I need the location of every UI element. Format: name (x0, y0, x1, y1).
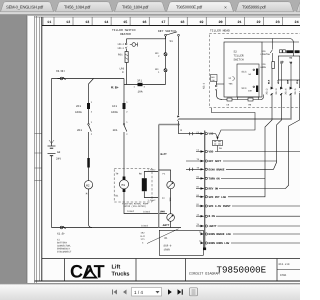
wire M1 exit (124, 192, 167, 214)
svg-text:TILLER HEAD: TILLER HEAD (210, 29, 230, 32)
motor M1 (123, 177, 126, 180)
connector key line (177, 116, 179, 122)
wire key switch left leg (165, 36, 167, 52)
svg-text:MOTOR (SCH-MOTOR): MOTOR (SCH-MOTOR) (124, 205, 146, 208)
connector X1:B+ pin (60, 77, 63, 80)
wire XS4 stub (290, 80, 292, 98)
svg-text:S13:: S13: (242, 70, 248, 73)
wire B- bus (52, 227, 182, 229)
wire X1:B+ feeder (52, 78, 125, 80)
svg-text:LIGHTSW: LIGHTSW (261, 53, 271, 56)
svg-text:SCR-0: SCR-0 (164, 245, 172, 248)
contact 2K1 (88, 124, 90, 126)
wire resistor bottom (144, 191, 158, 197)
svg-text:HORN HORN LOW: HORN HORN LOW (209, 242, 230, 245)
pin VCC (196, 133, 204, 135)
wire key to VCC pin (179, 121, 204, 134)
connector inline ECHO (189, 168, 192, 171)
pin numbers (197, 131, 203, 243)
svg-text:XPS:1: XPS:1 (118, 47, 125, 50)
svg-text:S2: S2 (234, 51, 238, 54)
svg-text:-BATT: -BATT (162, 224, 170, 227)
box PB (278, 56, 300, 80)
svg-text:GRN: GRN (287, 79, 290, 84)
svg-text:3F1: 3F1 (137, 80, 142, 83)
pin SPD IN (196, 205, 204, 207)
contact PB dots (281, 62, 283, 64)
svg-text:SEM-0_ENGLISH.pdf: SEM-0_ENGLISH.pdf (6, 5, 44, 10)
note 1K2 stack (141, 232, 146, 245)
svg-text:SWITCH: SWITCH (234, 59, 244, 62)
svg-text:10A: 10A (138, 91, 143, 94)
svg-text:TH58_1804.pdf: TH58_1804.pdf (122, 5, 149, 10)
svg-text:R1: R1 (165, 237, 169, 240)
thermo switch (132, 43, 136, 47)
svg-text:VDD: VDD (209, 151, 214, 154)
svg-text:24V: 24V (56, 158, 61, 161)
svg-text:DISCONNECT: DISCONNECT (57, 251, 72, 254)
connector XK:1 (164, 69, 167, 72)
svg-text:S1: S1 (170, 40, 174, 43)
svg-text:SPD 0-5V INPUT: SPD 0-5V INPUT (209, 205, 232, 208)
svg-text:HORN: HORN (261, 66, 267, 69)
svg-text:21: 21 (237, 20, 241, 25)
wire battery negative drop (51, 156, 53, 228)
svg-text:KEY SOFT: KEY SOFT (209, 160, 222, 163)
pin SPD LOW (196, 196, 204, 198)
svg-text:XPS:2: XPS:2 (118, 43, 125, 46)
wire coil feed (159, 170, 171, 181)
svg-text:19: 19 (199, 20, 203, 25)
svg-text:TILLER: TILLER (234, 55, 244, 58)
pin BATT (196, 225, 204, 227)
svg-text:CIRCUIT DIAGRAM: CIRCUIT DIAGRAM (189, 272, 220, 277)
svg-text:16mm2: 16mm2 (143, 211, 151, 214)
pin REV (196, 188, 204, 190)
svg-text:VMM: VMM (160, 211, 165, 214)
svg-text:T06: T06 (229, 83, 234, 86)
svg-text:22: 22 (256, 20, 260, 25)
wire shunt to M2 (88, 168, 90, 181)
svg-text:11: 11 (47, 20, 51, 25)
svg-text:16mm2: 16mm2 (141, 224, 149, 227)
svg-text:40A: 40A (169, 197, 172, 202)
svg-text:16mm2: 16mm2 (127, 210, 135, 213)
contactor coil H (167, 214, 175, 222)
svg-text:S13:: S13: (242, 87, 248, 90)
battery G2 (48, 140, 56, 156)
svg-text:HEATER: HEATER (120, 33, 131, 36)
pin arrows and sockets (201, 132, 208, 244)
wire coil to bus (170, 221, 172, 227)
wire XK2 to XK1 (165, 56, 167, 69)
svg-text:20: 20 (218, 20, 222, 25)
wire 2F1 to 2K1 (88, 109, 90, 124)
svg-text:1.5mm2: 1.5mm2 (148, 199, 157, 202)
label RED/WH box (211, 75, 218, 82)
wire resistor top (144, 172, 158, 179)
wire X1 feeder to bus (123, 79, 125, 85)
pin TURN (196, 177, 204, 179)
svg-text:TILLER SWITCH: TILLER SWITCH (112, 29, 136, 32)
bottom toolbar (0, 284, 300, 300)
resistor R5 (248, 98, 253, 101)
svg-text:T9850000E: T9850000E (217, 265, 267, 276)
svg-text:HORN BRAKE LOW: HORN BRAKE LOW (209, 233, 232, 236)
svg-text:×: × (224, 5, 227, 11)
svg-text:010-L10: 010-L10 (279, 263, 290, 266)
svg-text:12: 12 (66, 20, 70, 25)
svg-text:16: 16 (142, 20, 146, 25)
wire S13 box drop (238, 97, 259, 100)
svg-text:14: 14 (104, 20, 108, 25)
svg-text:TURN ON: TURN ON (209, 177, 220, 180)
wire thick gray down leg (158, 125, 160, 228)
svg-text:X1:B-: X1:B- (57, 233, 66, 236)
svg-text:B+PT: B+PT (161, 153, 168, 156)
relay contact boxes (280, 50, 283, 53)
wire M2 to B- bus (89, 189, 93, 228)
capacitor C5 (227, 98, 232, 101)
svg-text:B ON: B ON (209, 215, 216, 218)
svg-text:XS:4: XS:4 (284, 88, 287, 95)
svg-text:2K1: 2K1 (77, 129, 82, 132)
callout leader (147, 229, 179, 244)
wire battery positive drop (51, 79, 53, 147)
enclosure traction motor dashed box (114, 169, 152, 203)
svg-text:15: 15 (123, 20, 127, 25)
wire tiller left drop (217, 82, 223, 100)
wire tiller loop (212, 108, 256, 136)
connector inline VCC (189, 132, 192, 135)
fuse 3F1 (138, 83, 143, 86)
connector XS:1 pins (215, 85, 217, 91)
svg-text:1F1: 1F1 (112, 105, 117, 108)
box S2 tiller switch (224, 42, 262, 97)
svg-text:T9850000E.pdf: T9850000E.pdf (176, 5, 203, 10)
wire SW to VDD (217, 146, 219, 152)
header column cells (43, 17, 282, 26)
svg-text:13: 13 (85, 20, 89, 25)
svg-text:100A: 100A (111, 111, 118, 114)
svg-text:Trucks: Trucks (112, 271, 130, 278)
enclosure tiller head dashed (209, 34, 300, 108)
pin B ON (196, 215, 204, 217)
svg-text:2F1: 2F1 (76, 105, 81, 108)
wire pin strip bus (204, 131, 206, 249)
heater PS1 (126, 49, 128, 52)
junction key line (178, 124, 180, 126)
wire heater feed (127, 36, 166, 39)
wire B+ bus (124, 84, 166, 86)
pin VDD (196, 151, 204, 153)
svg-text:100A: 100A (75, 111, 82, 114)
pin HORN1 (202, 233, 205, 235)
controller box (159, 230, 203, 255)
lamp bar 2 (295, 50, 300, 53)
svg-text:23: 23 (276, 20, 280, 25)
wire 1F1 branch (123, 85, 125, 104)
wire to S2 box (217, 83, 225, 85)
svg-text:1K1: 1K1 (113, 129, 118, 132)
svg-text:150R: 150R (164, 249, 171, 252)
svg-text:T9859999.pdf: T9859999.pdf (242, 5, 266, 10)
contact 1K1 (123, 124, 125, 126)
svg-text:YEL: YEL (296, 79, 299, 84)
note battery connector (57, 239, 72, 254)
shunt bar M2 circuit (87, 158, 90, 168)
lamp bar 1 (286, 50, 293, 53)
svg-text:/WH: /WH (211, 79, 214, 82)
wire VCC to SW (211, 134, 218, 137)
wire PB internal 2 (290, 64, 292, 80)
svg-text:XS:3: XS:3 (275, 88, 278, 95)
wires continuing right (215, 152, 300, 244)
wire key switch right leg (178, 36, 180, 115)
svg-text:+BATT: +BATT (209, 225, 217, 228)
wire thick gray GRN from tiller (179, 98, 292, 120)
connector X1:B- pin (60, 226, 63, 229)
wire XS3 drop (226, 80, 282, 169)
wire tiller bottom run (222, 95, 264, 100)
pin HORN2 (202, 242, 205, 244)
svg-text:XS:1: XS:1 (203, 82, 206, 89)
switch SW aux (213, 141, 223, 146)
pin ECHO (186, 168, 204, 170)
svg-text:TH56_1084.pdf: TH56_1084.pdf (64, 5, 91, 10)
svg-text:18: 18 (180, 20, 184, 25)
svg-text:ECHO BRAKE: ECHO BRAKE (209, 168, 225, 171)
svg-text:WHT: WHT (277, 79, 280, 84)
svg-text:PS1: PS1 (118, 54, 123, 57)
wire thick gray key feed (159, 124, 179, 126)
svg-text:M:B+: M:B+ (111, 86, 119, 90)
wire XS5 drop (219, 80, 300, 189)
svg-text:1.5mm2: 1.5mm2 (148, 169, 157, 172)
resistor R6 (142, 178, 147, 191)
wire PB internal 1 (281, 64, 283, 80)
svg-text:KEY SWITCH: KEY SWITCH (158, 30, 176, 33)
svg-text:17: 17 (161, 20, 165, 25)
connector XK:2 (164, 53, 167, 56)
svg-text:XS:2: XS:2 (265, 88, 268, 95)
contactor coil P (167, 181, 175, 189)
svg-text:M1: M1 (122, 184, 126, 187)
svg-text:24: 24 (295, 20, 299, 25)
wire XS2 drop (228, 68, 272, 197)
connector XPS (125, 43, 127, 49)
svg-text:STMA: STMA (280, 274, 287, 277)
wire heater to bus (126, 63, 128, 85)
svg-text:1 / 4: 1 / 4 (134, 290, 143, 295)
pin KEY (186, 160, 204, 162)
wire heater drop (126, 39, 128, 43)
wire XK1 to bus (165, 72, 167, 85)
svg-text:X1:B+: X1:B+ (56, 70, 65, 73)
svg-text:M2: M2 (86, 184, 90, 187)
wire branch to 2F1 (89, 79, 94, 104)
switch S1 (165, 34, 167, 36)
left margin row dividers (35, 134, 42, 181)
pin labels (209, 133, 232, 245)
wire color labels (268, 79, 300, 84)
svg-text:G2: G2 (57, 151, 61, 154)
box S13 (237, 64, 259, 97)
svg-text:REV ON: REV ON (209, 188, 219, 191)
wire 1K1 to M1 (123, 132, 125, 177)
wire between coils (170, 189, 172, 214)
wire tiller top run (224, 39, 294, 57)
arrow SW (216, 137, 218, 141)
svg-text:VCC: VCC (209, 133, 214, 136)
motor M2 (84, 181, 92, 189)
svg-text:Lift: Lift (112, 264, 121, 271)
wire 1F1 to 1K1 (123, 109, 125, 124)
svg-text:SPD POT LOW: SPD POT LOW (209, 196, 227, 199)
fuse 1F1 (123, 103, 126, 109)
svg-text:XS:5: XS:5 (294, 88, 297, 95)
white drawing page (27, 16, 300, 284)
fuse 2F1 (87, 103, 90, 109)
svg-text:BLK: BLK (268, 79, 271, 84)
wire 2K1 to shunt (88, 132, 90, 158)
